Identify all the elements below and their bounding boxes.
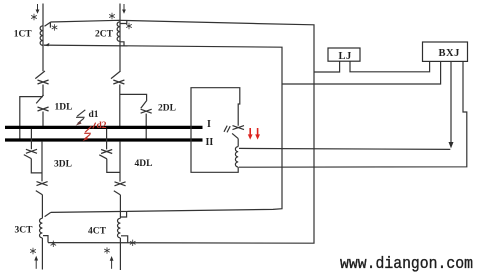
polarity asterisk left of 2CT top (109, 13, 115, 19)
red fault current arrows (250, 128, 257, 135)
bus-tie current transformer coil (235, 147, 238, 167)
wire: 1CT secondary bottom tap arrowhead (44, 43, 49, 46)
wire: 4DL branch from bus I (106, 129, 108, 150)
wire: 4CT secondary top hook (121, 212, 127, 217)
wire: BXJ down-arrow lead (450, 61, 452, 142)
isolator blade 4DL branch (99, 155, 107, 159)
polarity asterisk right of 1CT coil (52, 24, 58, 30)
svg-text:www.diangon.com: www.diangon.com (340, 254, 473, 273)
wire: 1CT secondary top tap hook (45, 22, 51, 28)
wire: feeder 1 primary vertical (42, 4, 44, 72)
bus-tie double tick marks (224, 126, 230, 133)
svg-text:LJ: LJ (339, 51, 352, 62)
wire: second BXJ tap going left then to x=282 vertical (282, 61, 441, 84)
svg-text:2CT: 2CT (95, 30, 114, 40)
svg-text:4DL: 4DL (135, 159, 153, 169)
wire between 1DL terminals (42, 85, 44, 96)
wire: feeder2 main to bus I (119, 85, 121, 127)
current transformer 4CT coil (117, 218, 120, 238)
bus-tie breaker blade (232, 133, 238, 138)
wire: 3DL to 3CT (41, 195, 43, 219)
polarity asterisk at 4CT bottom tap (130, 240, 136, 246)
breaker 1DL upper terminal (38, 80, 49, 84)
relay BXJ box (423, 42, 468, 61)
wire: 4CT secondary bottom hook (121, 236, 128, 243)
breaker 4DL blade (114, 191, 121, 195)
isolator terminal 2CT column (113, 80, 124, 84)
polarity asterisk below 3CT (30, 248, 36, 254)
relay LJ box (328, 48, 360, 61)
svg-text:3CT: 3CT (15, 226, 34, 236)
wire: below 4CT (119, 238, 121, 270)
wire: 3DL main from bus II (41, 141, 43, 181)
fault marker d1 on bus I (76, 110, 86, 126)
breaker 2DL lower terminal (141, 109, 152, 113)
wire: 3DL branch hook to main (31, 159, 42, 173)
wire: LJ right terminal to BXJ (350, 61, 430, 72)
busbar I (5, 126, 203, 129)
svg-text:I: I (207, 119, 211, 130)
isolator blade above 1DL (35, 71, 45, 79)
wire: CT secondary top bus, down right side, to 3CT/4CT bottom taps (48, 20, 314, 243)
breaker 1DL lower terminal (38, 107, 49, 111)
current direction arrow below 4CT (110, 256, 114, 269)
isolator blade above 2DL column (111, 71, 121, 79)
svg-text:1CT: 1CT (14, 30, 33, 40)
wire: 3DL branch from bus I (30, 129, 32, 149)
current transformer 1CT coil (40, 26, 43, 46)
wire: branch to 2DL (120, 94, 147, 100)
current transformer 2CT coil (117, 22, 120, 42)
wire: 4DL main from bus II (119, 141, 121, 181)
wire: 1DL to bus I (42, 112, 44, 127)
wire: 4DL branch hook to main (107, 159, 120, 173)
breaker 2DL blade (141, 100, 147, 108)
svg-text:2DL: 2DL (158, 104, 176, 114)
bus-tie breaker terminal (233, 126, 245, 130)
wire: 2DL to bus II (145, 114, 147, 140)
wire: tie CT bottom tap up to BXJ (239, 61, 467, 167)
current direction arrow at 2CT top (122, 4, 126, 14)
breaker 4DL upper terminal (115, 182, 126, 186)
svg-text:1DL: 1DL (55, 103, 73, 113)
breaker 1DL blade (36, 95, 43, 104)
wire: 3CT secondary bottom hook (43, 236, 48, 243)
wire: branch from 1DL column to bus II (20, 97, 43, 140)
wire: feeder 2 primary vertical (119, 4, 121, 72)
wire: blade to tie CT (237, 139, 239, 147)
svg-text:BXJ: BXJ (439, 48, 460, 59)
wire: CT secondary bottom bus, down at x=282, to 3CT/4CT top taps (44, 45, 282, 212)
svg-text:4CT: 4CT (88, 227, 107, 237)
wire: below 3CT (41, 238, 43, 270)
fault marker d2 on bus II (red) (83, 123, 96, 141)
wire: tie CT top tap to BXJ arrow (239, 148, 450, 149)
wire: 2CT secondary top tap hook (121, 20, 127, 23)
isolator blade 3DL branch (24, 155, 32, 159)
breaker 3DL blade (36, 191, 43, 195)
isolator terminal 3DL branch (26, 149, 37, 153)
isolator terminal 4DL branch (101, 150, 112, 154)
wire: 3CT secondary top hook (45, 212, 51, 216)
svg-text:II: II (206, 137, 214, 148)
polarity asterisk left of 1CT top (31, 14, 37, 20)
wire: bus-tie loop rectangle (191, 88, 240, 173)
current direction arrow at 1CT top (36, 4, 40, 14)
busbar II (5, 138, 203, 141)
wire: from x=314 to LJ left terminal (314, 61, 340, 72)
current transformer 3CT coil (40, 218, 43, 238)
wire: 2CT secondary bottom tap hook (121, 42, 125, 46)
breaker 3DL upper terminal (37, 182, 48, 186)
polarity asterisk at 3CT bottom tap (51, 241, 57, 247)
svg-text:d2: d2 (97, 121, 107, 131)
current direction arrow below 3CT (34, 256, 38, 269)
arrowhead at BXJ lead end (449, 142, 454, 148)
wire: 4DL to 4CT (119, 195, 121, 218)
svg-text:3DL: 3DL (54, 160, 72, 170)
svg-text:d1: d1 (89, 110, 99, 120)
polarity asterisk right of 2CT coil (126, 23, 132, 29)
polarity asterisk below 4CT (104, 247, 110, 253)
